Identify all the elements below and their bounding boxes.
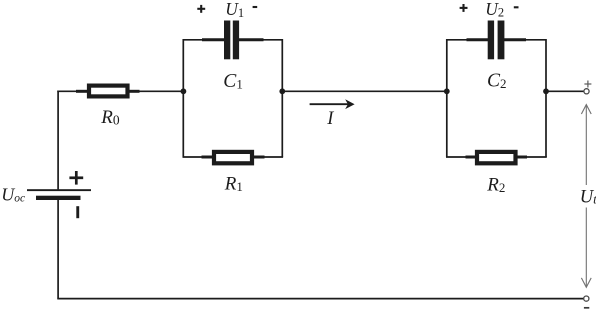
node C junction dot xyxy=(444,88,450,94)
node B junction dot xyxy=(279,88,285,94)
plus mark of C2 xyxy=(460,4,468,12)
capacitor C1 xyxy=(224,21,239,60)
node A junction dot xyxy=(181,88,187,94)
resistor R1 xyxy=(214,152,252,163)
wire: left rail lower (battery bottom lead) xyxy=(57,200,59,299)
plus mark of C1 xyxy=(197,5,205,13)
battery minus mark (vertical bar) xyxy=(76,206,79,218)
wire: thick lead stubs of C1 xyxy=(202,38,264,41)
positive output terminal xyxy=(584,89,589,94)
resistor R0 xyxy=(89,86,128,97)
wire: left rail upper (battery top lead) xyxy=(57,91,59,190)
battery Uoc (voltage source) xyxy=(27,189,91,200)
wire: R0 to node A xyxy=(136,90,183,92)
minus mark of C1 xyxy=(253,6,258,8)
wire: thick lead stubs of R1 xyxy=(202,156,265,159)
node D junction dot xyxy=(543,88,549,94)
wire: node D to positive terminal xyxy=(546,90,584,92)
battery plus mark xyxy=(69,171,83,185)
minus mark of C2 xyxy=(514,6,519,8)
wire: thick lead stubs of R2 xyxy=(466,156,528,159)
resistor R2 xyxy=(477,152,516,163)
wire: RC loop 1 outline xyxy=(183,39,284,157)
wire: thick lead stubs of R0 xyxy=(76,90,140,93)
wire: source to R0 xyxy=(57,90,80,92)
wire: RC loop 2 outline xyxy=(446,39,547,157)
wire: thick lead stubs of C2 xyxy=(467,38,527,41)
negative output terminal xyxy=(584,296,589,301)
voltage dimension arrow Ut xyxy=(581,105,591,288)
wire: bottom rail xyxy=(57,298,584,300)
svg-text:I: I xyxy=(326,109,334,129)
current arrow I xyxy=(310,99,355,109)
terminal minus mark xyxy=(584,307,589,309)
capacitor C2 xyxy=(488,21,505,60)
terminal plus mark xyxy=(584,81,591,88)
wire: node B to node C (middle link) xyxy=(282,90,447,92)
